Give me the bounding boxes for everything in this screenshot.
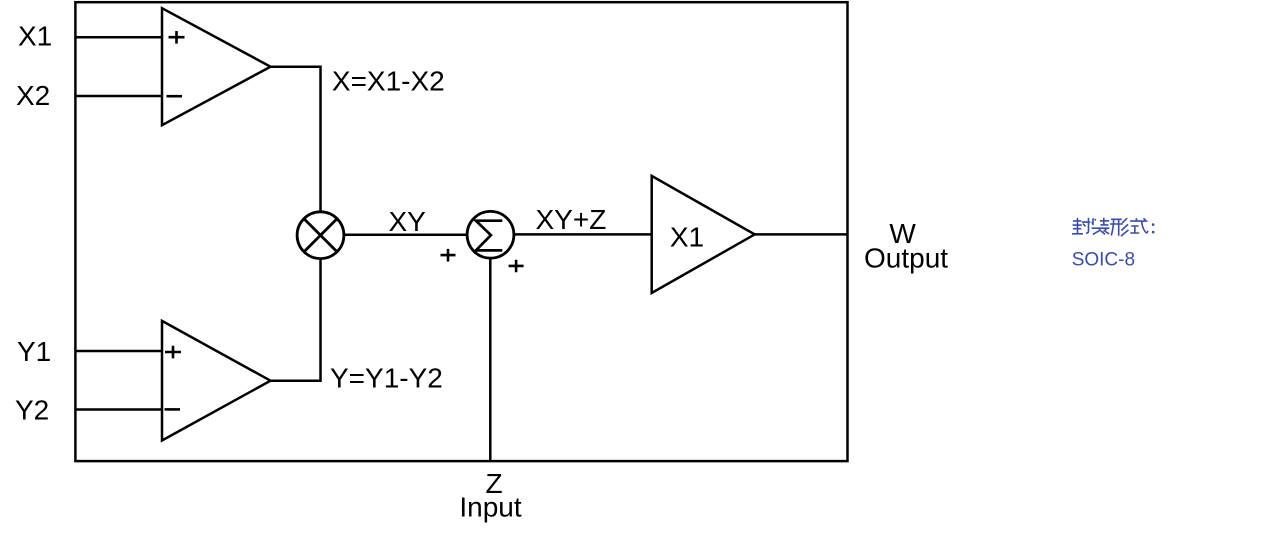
summer plus marker (XY input): [441, 249, 456, 262]
char feng: [1072, 218, 1090, 234]
wire Y2 input: [75, 408, 162, 411]
char shi: [1130, 218, 1148, 233]
wire summer to buffer: [514, 233, 652, 236]
U2 minus input marker: [165, 408, 181, 411]
wire X1 input: [75, 36, 162, 39]
U2 plus input marker: [165, 346, 181, 359]
wire Y1 input: [75, 350, 162, 353]
svg-text:X1: X1: [18, 21, 52, 52]
summer U3 (circle with sigma): [467, 211, 514, 258]
svg-text:Y1: Y1: [17, 336, 51, 367]
op-amp U1 (X difference amplifier): [162, 8, 271, 125]
char zhuang: [1092, 218, 1110, 235]
wire from U2 output to multiplier: [271, 259, 321, 381]
op-amp U2 (Y difference amplifier): [162, 321, 271, 441]
U1 plus input marker: [169, 31, 185, 44]
multiplier M1 (circle with X cross): [297, 212, 344, 259]
colon: [1152, 223, 1155, 233]
wire from U1 output to multiplier: [271, 67, 321, 211]
svg-text:X2: X2: [16, 80, 50, 111]
svg-text:Input: Input: [459, 492, 521, 523]
wire X2 input: [75, 95, 162, 98]
svg-text:Output: Output: [864, 243, 948, 274]
char xing: [1110, 218, 1128, 236]
svg-text:Y2: Y2: [15, 394, 49, 425]
svg-text:Y=Y1-Y2: Y=Y1-Y2: [330, 362, 443, 393]
wire multiplier to summer: [344, 234, 467, 237]
wire buffer to output: [755, 233, 848, 236]
IC boundary rectangle: [75, 2, 847, 461]
svg-text:XY: XY: [389, 206, 427, 237]
op-amp U4 (X1 output buffer): [652, 176, 755, 293]
svg-text:X1: X1: [670, 221, 704, 252]
summer plus marker (Z input): [509, 260, 524, 273]
package annotation (Chinese: 封装形式:) drawn strokes: [1072, 218, 1154, 236]
svg-text:XY+Z: XY+Z: [536, 204, 607, 235]
wire Z input: [489, 258, 492, 461]
U1 minus input marker: [167, 95, 183, 98]
svg-text:SOIC-8: SOIC-8: [1072, 250, 1135, 271]
svg-text:X=X1-X2: X=X1-X2: [332, 65, 445, 96]
